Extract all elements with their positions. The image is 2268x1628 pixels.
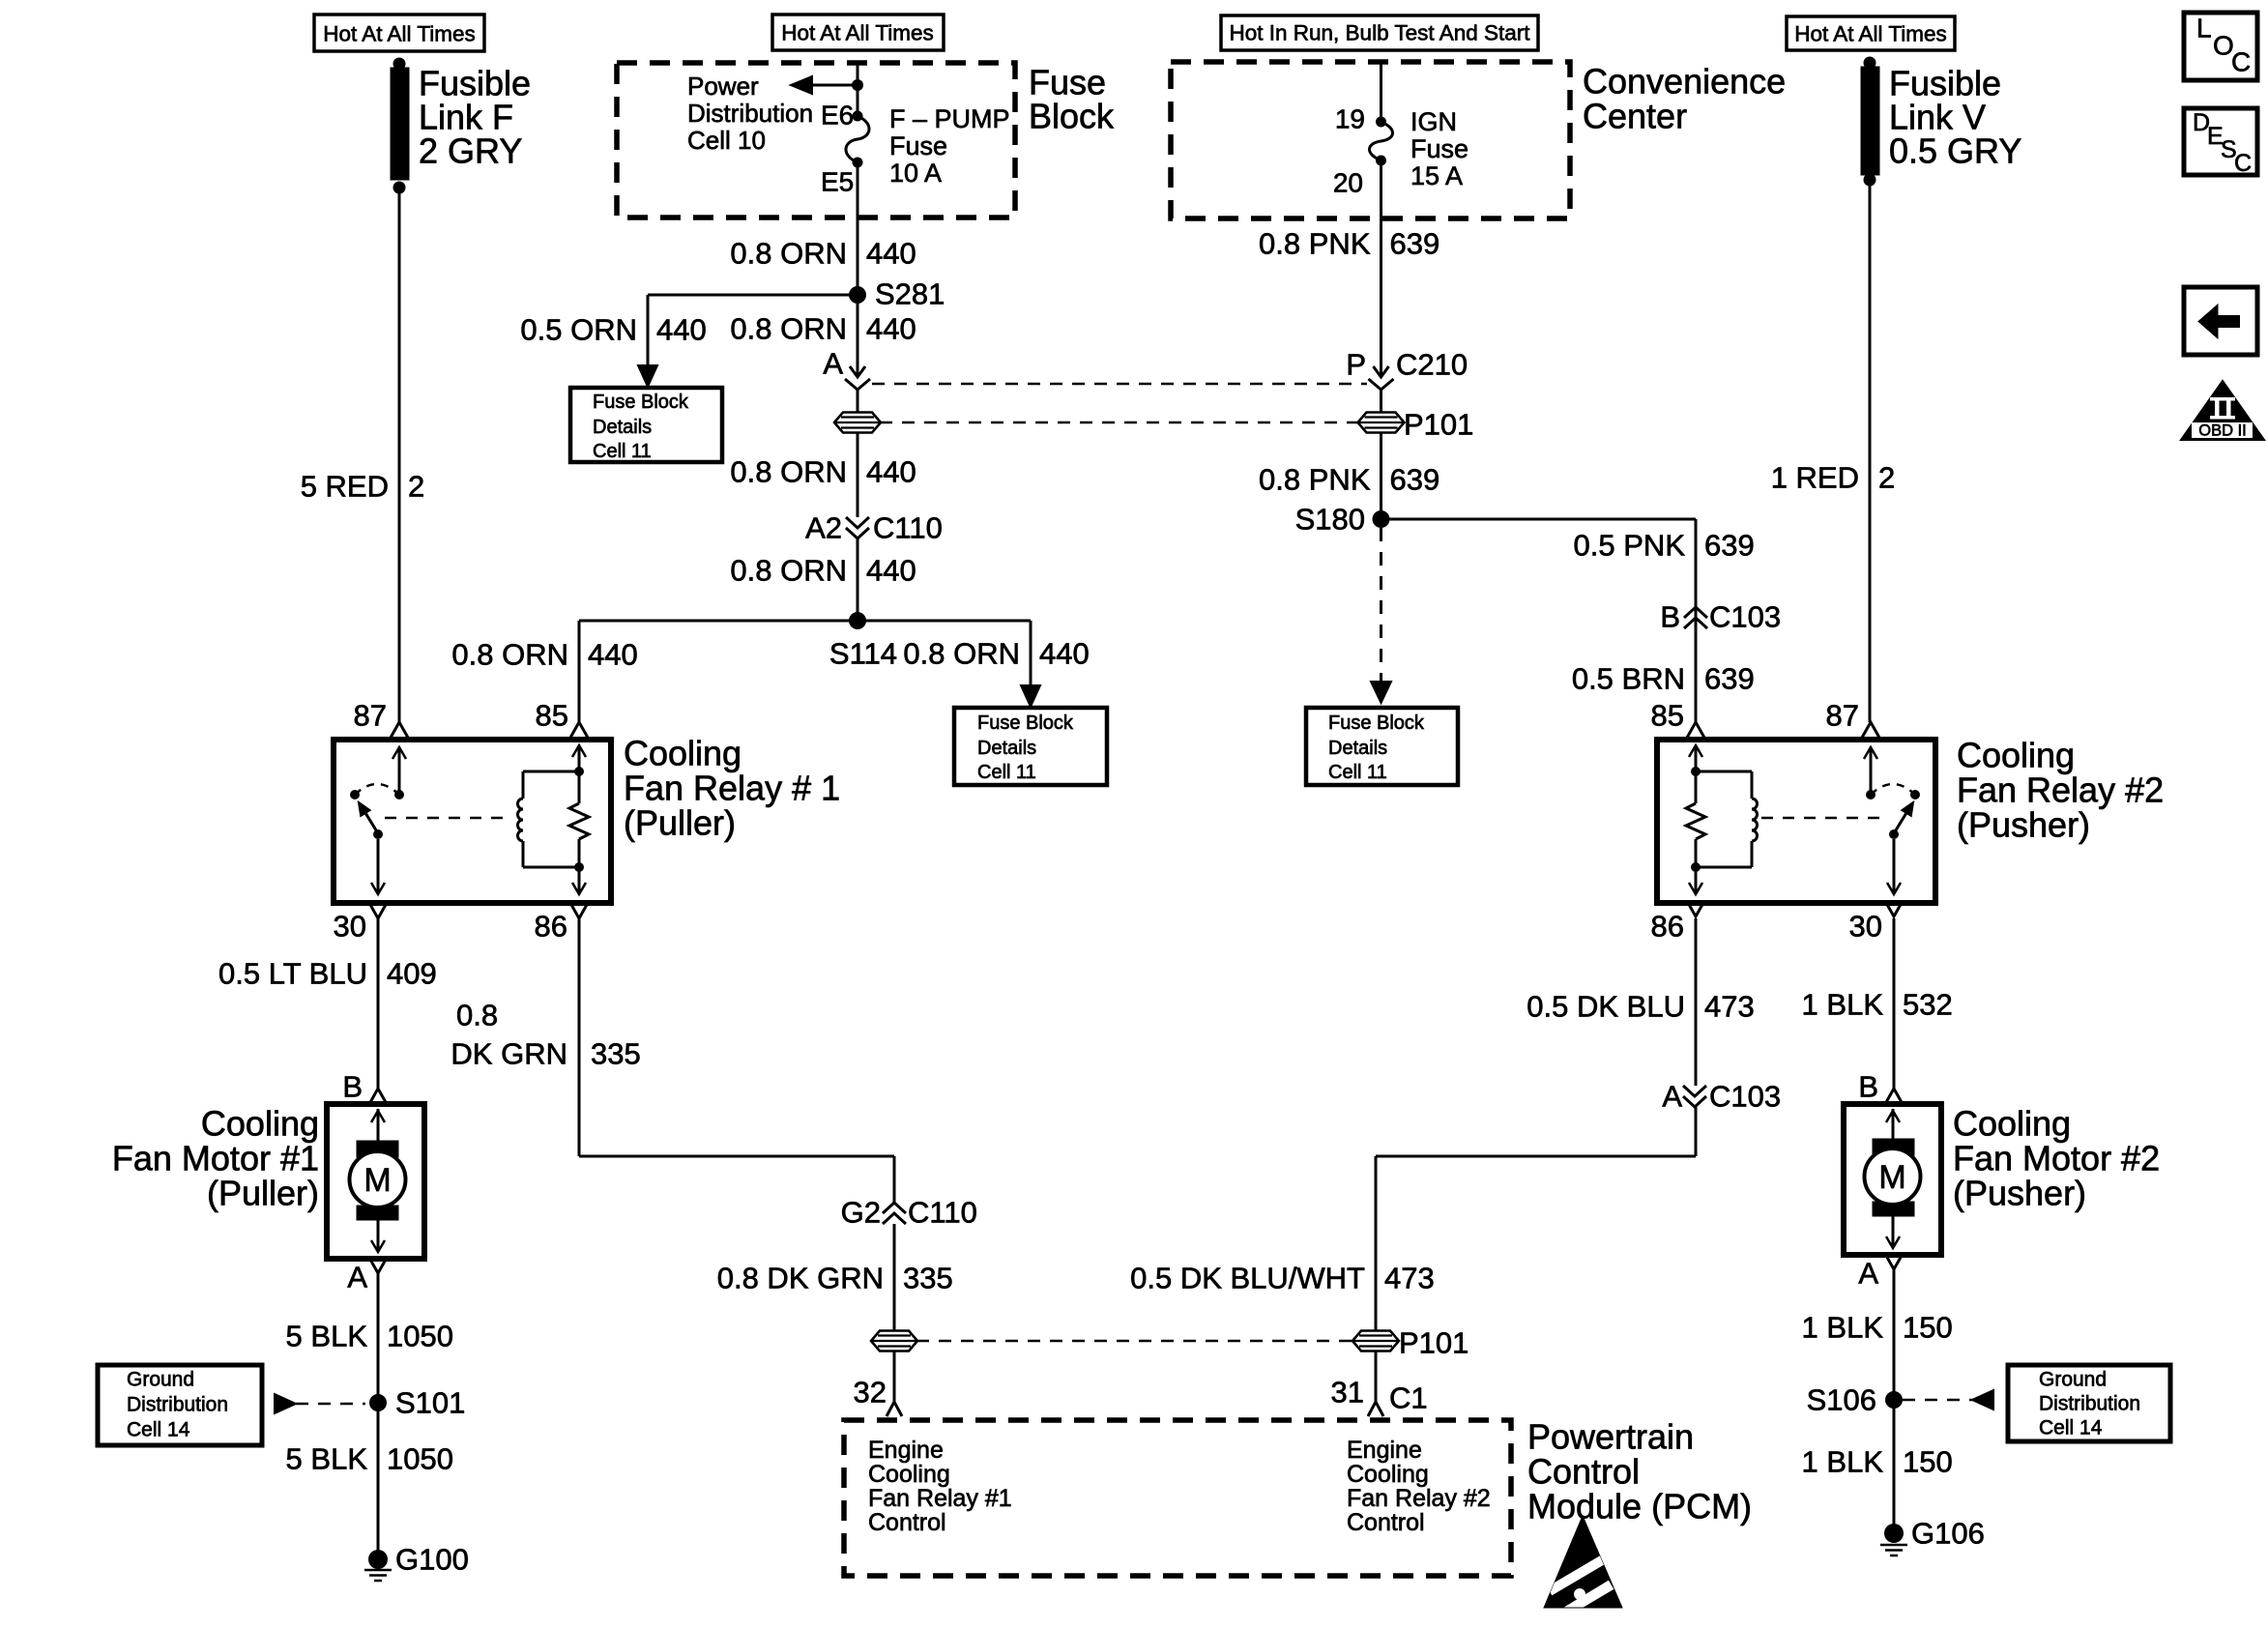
svg-text:B: B [1660,600,1680,634]
box: Ground Distribution Cell 14 (right) [2008,1365,2170,1441]
convenience center dashed box [1171,62,1570,218]
svg-text:P101: P101 [1404,408,1473,442]
svg-text:Block: Block [1029,97,1115,136]
wire: 20 down to C210 pin P [1380,160,1382,376]
svg-text:20: 20 [1333,168,1363,198]
svg-text:C103: C103 [1709,1080,1781,1114]
svg-text:0.8 ORN: 0.8 ORN [451,638,568,672]
relay 1 switch pivot [373,829,383,839]
arrow from Ground Distribution (left) [275,1394,365,1413]
relay 2 coil (inductor) [1696,771,1758,867]
ground G106 [1880,1517,1985,1556]
wire: C103 to corner to P101 [1376,1107,1696,1330]
svg-text:30: 30 [334,910,366,944]
svg-text:1 BLK: 1 BLK [1802,1445,1884,1479]
svg-text:Fuse: Fuse [889,131,947,160]
pin label E5 [821,167,854,197]
relay 1 switch fixed contact [394,790,404,799]
svg-text:C: C [2234,150,2252,177]
svg-text:P101: P101 [1399,1326,1468,1360]
svg-text:E5: E5 [821,167,854,197]
svg-text:(Puller): (Puller) [624,803,736,843]
fusible link V symbol [1861,57,1879,187]
svg-text:S101: S101 [395,1386,465,1420]
label: Power Distribution Cell 10 [687,72,813,155]
svg-text:P: P [1346,348,1366,382]
label: Fusible Link F 2 GRY [419,64,531,171]
wire: relay 2 pin 30 to motor 2 [1893,918,1896,1089]
svg-text:(Pusher): (Pusher) [1953,1174,2086,1213]
node E5 [853,158,863,168]
wire label 0.5 DK BLU 473 [1527,990,1754,1024]
svg-text:M: M [363,1162,391,1199]
connector C103 chevrons (B) [1684,607,1707,628]
relay 1 linkage dashed line [385,817,510,820]
svg-text:85: 85 [536,699,568,733]
box: Fuse Block Details Cell 11 (no.2) [954,708,1107,785]
svg-text:Engine: Engine [868,1437,944,1464]
ESD warning symbol [1544,1516,1622,1608]
relay 1 switch left contact [350,790,360,799]
relay 1 switch lever [359,802,378,833]
label: Cooling Fan Relay #2 (Pusher) [1957,736,2164,845]
ground G100 [364,1543,469,1582]
pass-through grommet P101 (blue wire) [1352,1326,1468,1360]
label: Cooling Fan Relay # 1 (Puller) [624,734,840,843]
svg-text:Ground: Ground [127,1369,194,1391]
dashed arrow S180 to Fuse Block Details box 3 [1371,528,1391,703]
svg-text:L: L [2196,14,2212,44]
wire: S114 branch left to relay 1 pin 85 [579,621,858,722]
relay 1 coil top node [574,767,584,776]
fuse block dashed box [617,63,1015,218]
wire label 5 RED 2 [301,470,425,504]
connector chevron pin 85 [570,722,588,738]
svg-text:(Puller): (Puller) [207,1174,319,1213]
wire: P101 to S180 [1380,433,1382,519]
label: Fusible Link V 0.5 GRY [1889,64,2021,171]
svg-text:F – PUMP: F – PUMP [889,104,1010,133]
pin label 86 (relay 1) [535,910,567,944]
svg-text:86: 86 [535,910,567,944]
pin label A (motor 2) [1858,1257,1878,1291]
wire: S180 branch right to relay 2 pin 85 [1381,519,1697,722]
svg-text:C110: C110 [873,511,943,545]
svg-text:Details: Details [1328,738,1387,759]
connector chevron B (motor 2) [1885,1089,1903,1104]
pin label 32 [854,1376,887,1410]
icon: LOC box [2184,13,2257,80]
svg-text:Fan Relay #2: Fan Relay #2 [1347,1485,1491,1512]
relay 2 switch dashed arc [1871,784,1915,795]
wire: P101 to PCM pin 31 [1375,1352,1378,1401]
dashed link line P101 (top) [880,422,1357,424]
svg-text:0.5 BRN: 0.5 BRN [1572,662,1685,696]
svg-text:Hot In Run, Bulb Test And Star: Hot In Run, Bulb Test And Start [1229,21,1530,45]
wire: P101 to C110 (orange) [857,433,859,517]
svg-text:Fan Motor #1: Fan Motor #1 [112,1139,319,1178]
connector chevron pin 30 [369,903,387,918]
wire: S281 to connector C210 pin A [857,295,859,376]
motor 2 armature circle [1865,1148,1921,1205]
svg-text:440: 440 [866,455,916,489]
svg-text:Fuse Block: Fuse Block [977,712,1074,734]
svg-text:639: 639 [1704,529,1755,563]
svg-text:S106: S106 [1807,1383,1876,1417]
svg-text:1 BLK: 1 BLK [1802,988,1884,1022]
arrow into Fuse Block Details box 2 [1021,685,1040,707]
pin label 20 [1333,168,1363,198]
svg-text:A: A [823,347,843,381]
relay 2 box [1657,740,1935,903]
svg-text:30: 30 [1849,910,1882,944]
wire: C110 to P101 (green) [893,1224,896,1330]
connector C110 chevrons [846,517,869,538]
svg-text:G100: G100 [395,1543,469,1577]
svg-text:A: A [1662,1080,1682,1114]
splice S101 [369,1386,465,1420]
motor 1 upper brush [357,1141,398,1157]
motor 2 upper brush [1873,1139,1914,1155]
wire label 0.5 LT BLU 409 [218,957,437,991]
wire: fusible link V to relay 2 pin 87 [1869,180,1872,722]
relay 2 pin 85 arm [1689,745,1702,771]
relay 1 pin 87 contact arm [393,747,406,795]
label: Cooling Fan Motor #2 (Pusher) [1953,1104,2160,1213]
PCM dashed box [844,1420,1511,1576]
connector chevron pin 87 (relay 2) [1862,722,1879,738]
pass-through grommet P101 (green wire) [871,1331,917,1352]
label: Cooling Fan Motor #1 (Puller) [112,1104,319,1213]
wire: fusible link F to relay 1 pin 87 [398,188,401,722]
arrow to Ground Distribution (right) [1903,1390,1993,1410]
fusible link F symbol [391,58,409,194]
pin label 85 (relay 1) [536,699,568,733]
pin label 30 (relay 2) [1849,910,1882,944]
pin label 19 [1335,104,1365,134]
svg-text:440: 440 [656,313,707,347]
svg-text:639: 639 [1390,227,1440,261]
wire: relay 1 pin 30 to motor 1 [377,918,380,1089]
relay 1 coil bottom node [574,862,584,872]
motor 1 armature circle [350,1151,406,1207]
svg-text:15 A: 15 A [1410,161,1463,190]
pin label A (C210) [823,347,843,381]
relay 2 switch pivot [1889,829,1899,839]
wire label 0.5 PNK 639 [1574,529,1755,563]
pin label 31 / C1 [1331,1376,1428,1415]
svg-text:M: M [1878,1159,1905,1196]
svg-text:G106: G106 [1911,1517,1985,1551]
pin label P / connector C210 [1346,348,1468,382]
svg-text:Cell 14: Cell 14 [127,1419,190,1441]
wire label 0.8 PNK 639 (lower) [1259,463,1439,497]
pass-through grommet P101 (pink wire) [1358,408,1474,442]
svg-text:Fuse: Fuse [1410,134,1468,163]
svg-text:Details: Details [593,417,652,438]
wire label 0.8 ORN 440 (above S281) [730,237,916,271]
wire label 0.8 ORN 440 (right branch) [903,637,1089,671]
motor 1 top lead [371,1109,385,1141]
connector chevron A (motor 2) [1885,1254,1903,1269]
wire label 0.5 DK BLU/WHT 473 [1130,1262,1435,1295]
wire: motor 1 to S101 [377,1273,380,1401]
relay 2 pin 87 contact arm [1864,747,1877,795]
wire: S114 branch right [858,621,1031,688]
relay 2 switch fixed contact [1866,790,1875,799]
svg-text:639: 639 [1390,463,1440,497]
svg-text:B: B [342,1070,363,1104]
arrow to Power Distribution [791,76,858,94]
wire: E5 down to S281 [857,162,859,295]
svg-text:0.8 ORN: 0.8 ORN [730,455,847,489]
motor 2 box [1844,1104,1941,1255]
wire label 0.8 ORN 440 (above S114) [730,554,916,588]
svg-text:Details: Details [977,738,1036,759]
wire: relay 1 pin 86 to C110 G2 [579,918,894,1203]
svg-text:1050: 1050 [387,1442,453,1476]
wire: C210 to P101 (orange) [857,390,859,412]
svg-text:Cooling: Cooling [1347,1461,1429,1488]
svg-text:1050: 1050 [387,1320,453,1353]
connector chevron A (motor 1) [369,1258,387,1273]
svg-text:0.8 ORN: 0.8 ORN [730,312,847,346]
svg-text:Powertrain: Powertrain [1527,1417,1694,1457]
splice S180 [1295,503,1390,537]
svg-text:440: 440 [588,638,638,672]
motor 2 bottom lead [1886,1216,1900,1248]
wire: relay 2 pin 86 to C103 A [1695,918,1698,1086]
splice S281 [849,277,945,311]
svg-text:0.8 PNK: 0.8 PNK [1259,463,1371,497]
fuse IGN element [1369,122,1392,160]
box: Ground Distribution Cell 14 (left) [98,1365,262,1445]
svg-text:335: 335 [591,1037,641,1071]
svg-text:S114: S114 [829,637,897,671]
pin label A2 / connector C110 [805,511,943,545]
pin label B (motor 2) [1858,1070,1878,1104]
label box: Hot At All Times (left) [314,15,484,51]
svg-text:2: 2 [408,470,424,504]
svg-text:0.5 LT BLU: 0.5 LT BLU [218,957,367,991]
wire label 5 BLK 1050 (upper) [286,1320,453,1353]
relay 2 resistor (zigzag) [1686,771,1705,867]
svg-text:Cell 10: Cell 10 [687,126,766,155]
wire: S101 to G100 [377,1403,380,1559]
svg-text:Fuse Block: Fuse Block [593,392,689,413]
label: F-PUMP Fuse 10 A [889,104,1010,188]
wire label 0.5 BRN 639 [1572,662,1755,696]
svg-text:Hot At All Times: Hot At All Times [323,22,476,46]
svg-text:2 GRY: 2 GRY [419,131,522,171]
svg-text:Distribution: Distribution [2039,1393,2140,1415]
motor 2 lower brush [1873,1202,1914,1216]
svg-text:C: C [2231,47,2251,77]
relay 2 pin 30 arm [1887,839,1901,894]
connector C210 right half [1369,366,1394,390]
svg-text:532: 532 [1903,988,1953,1022]
motor 2 top lead [1886,1109,1900,1139]
svg-text:0.5 DK BLU/WHT: 0.5 DK BLU/WHT [1130,1262,1365,1295]
svg-text:G2: G2 [841,1196,881,1230]
connector chevron pin 30 (relay 2) [1885,901,1903,916]
connector C210 left half [845,366,870,390]
wire: C110 to S114 [857,538,859,621]
wire: motor 2 to S106 [1893,1269,1896,1400]
svg-text:0.5 GRY: 0.5 GRY [1889,131,2021,171]
svg-text:Center: Center [1583,97,1687,136]
dashed link line P101 (bottom) [916,1340,1353,1343]
wire label 0.8 ORN 440 (left branch) [451,638,637,672]
svg-text:Control: Control [1527,1452,1640,1492]
pin label 85 (relay 2) [1651,699,1684,733]
relay 1 resistor (zigzag) [569,771,589,867]
connector chevron pin 86 [570,903,588,918]
svg-text:0.8 DK GRN: 0.8 DK GRN [717,1262,884,1295]
svg-text:OBD II: OBD II [2198,422,2247,440]
svg-text:5 BLK: 5 BLK [286,1320,368,1353]
node: power distribution tap [852,79,863,91]
relay 2 pin 86 arm [1689,867,1702,894]
svg-text:Hot At All Times: Hot At All Times [1794,22,1947,46]
relay 1 coil (inductor) [518,771,580,867]
dashed link line C210 [872,383,1367,386]
svg-text:(Pusher): (Pusher) [1957,805,2090,845]
pin label B / connector C103 [1660,600,1781,634]
svg-text:Cell 14: Cell 14 [2039,1417,2103,1439]
wire: S106 to G106 [1893,1400,1896,1533]
node 20 [1376,156,1386,166]
connector C110 chevrons (G2) [883,1203,906,1224]
svg-text:Fuse Block: Fuse Block [1328,712,1425,734]
box: Fuse Block Details Cell 11 (no.1) [570,388,722,462]
svg-text:Fan Relay # 1: Fan Relay # 1 [624,769,840,808]
wire label 0.8 / DK GRN 335 [451,999,640,1071]
svg-text:Cooling: Cooling [624,734,741,773]
wire label 1 BLK 150 (lower) [1802,1445,1953,1479]
svg-text:0.5 ORN: 0.5 ORN [520,313,637,347]
connector chevron pin 32 [887,1401,902,1416]
svg-text:A: A [347,1261,367,1294]
svg-text:0.8 PNK: 0.8 PNK [1259,227,1371,261]
label: Engine Cooling Fan Relay #2 Control [1347,1437,1491,1536]
wire: P101 to PCM pin 32 [893,1352,896,1401]
pin label A / connector C103 (lower) [1662,1080,1781,1114]
svg-text:E6: E6 [821,101,854,131]
svg-text:S180: S180 [1295,503,1365,537]
svg-text:Cell 11: Cell 11 [977,762,1036,783]
pin label E6 [821,101,854,131]
relay 1 pin 30 arm [371,839,385,894]
pin label 87 (relay 1) [354,699,387,733]
svg-text:Module (PCM): Module (PCM) [1527,1487,1752,1526]
svg-text:87: 87 [1826,699,1859,733]
relay 1 pin 86 arm [572,867,586,894]
svg-text:C110: C110 [908,1196,977,1230]
svg-text:Control: Control [1347,1509,1425,1536]
svg-text:335: 335 [903,1262,953,1295]
connector chevron pin 85 (relay 2) [1687,722,1704,738]
svg-text:440: 440 [866,312,916,346]
svg-text:Cooling: Cooling [1957,736,2075,775]
label box: Hot In Run, Bulb Test And Start [1221,15,1538,50]
svg-text:0.8 ORN: 0.8 ORN [730,237,847,271]
wire label 1 RED 2 [1771,461,1896,495]
svg-text:150: 150 [1903,1311,1953,1345]
relay 1 box [334,740,611,903]
pin label 86 (relay 2) [1651,910,1684,944]
svg-text:Fan Motor #2: Fan Motor #2 [1953,1139,2160,1178]
wire: convenience center feed [1380,62,1382,122]
wire label 0.8 PNK 639 (upper) [1259,227,1439,261]
svg-text:5 BLK: 5 BLK [286,1442,368,1476]
splice S114 [829,612,897,671]
motor 1 box [327,1104,424,1259]
relay 1 pin 85 arm [572,745,586,771]
svg-text:A2: A2 [805,511,842,545]
svg-text:Power: Power [687,72,759,101]
relay 1 switch dashed arc [355,784,399,795]
svg-text:DK GRN: DK GRN [451,1037,567,1071]
svg-text:0.8: 0.8 [456,999,498,1032]
connector C103 chevrons (A) [1683,1086,1706,1107]
relay 2 switch lever [1894,802,1913,833]
wire: S281 branch left [648,295,858,368]
node E6 [853,111,863,122]
icon: back-arrow box [2184,287,2257,355]
svg-text:31: 31 [1331,1376,1364,1410]
wire label 0.5 ORN 440 [520,313,706,347]
svg-text:Cell 11: Cell 11 [593,441,652,462]
svg-text:150: 150 [1903,1445,1953,1479]
svg-text:440: 440 [866,237,916,271]
svg-text:S281: S281 [875,277,945,311]
svg-text:473: 473 [1384,1262,1435,1295]
svg-text:32: 32 [854,1376,887,1410]
pin label 87 (relay 2) [1826,699,1859,733]
svg-text:1 BLK: 1 BLK [1802,1311,1884,1345]
arrow into Fuse Block Details box 1 [638,365,657,387]
svg-text:Distribution: Distribution [127,1394,228,1416]
wire label 0.8 DK GRN 335 [717,1262,953,1295]
icon: DESC box [2184,108,2257,177]
svg-text:Control: Control [868,1509,946,1536]
svg-text:2: 2 [1878,461,1895,495]
svg-text:IGN: IGN [1410,107,1457,136]
svg-text:Cooling: Cooling [1953,1104,2071,1144]
motor 1 lower brush [357,1206,398,1220]
splice S106 [1807,1383,1903,1417]
connector chevron pin 87 [391,722,408,738]
svg-text:C103: C103 [1709,600,1781,634]
svg-text:87: 87 [354,699,387,733]
label: Powertrain Control Module (PCM) [1527,1417,1752,1526]
box: Fuse Block Details Cell 11 (no.3) [1306,708,1458,785]
svg-text:86: 86 [1651,910,1684,944]
svg-text:85: 85 [1651,699,1684,733]
relay 2 linkage dashed line [1761,817,1885,820]
label: Convenience Center [1583,62,1786,136]
svg-text:0.8 ORN: 0.8 ORN [730,554,847,588]
pin label A (motor 1) [347,1261,367,1294]
svg-text:Cooling: Cooling [868,1461,950,1488]
svg-text:10 A: 10 A [889,159,942,188]
svg-text:Engine: Engine [1347,1437,1422,1464]
relay 2 coil bottom node [1691,862,1701,872]
wire: C210 to P101 (pink) [1380,390,1382,412]
svg-text:409: 409 [387,957,437,991]
wire label 0.8 ORN 440 (below P101) [730,455,916,489]
